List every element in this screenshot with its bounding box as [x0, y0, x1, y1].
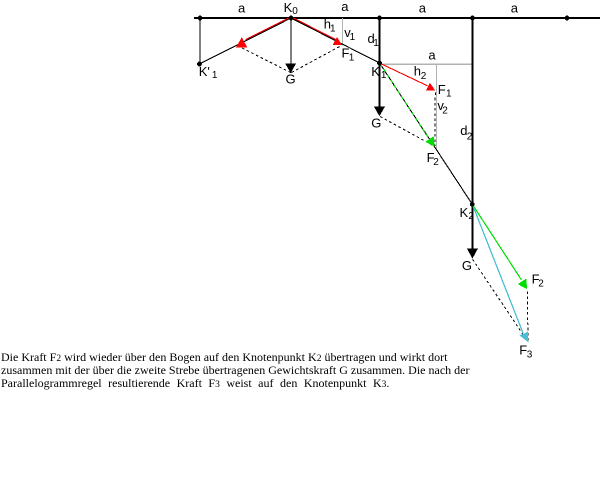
dashed parallelogram side F1 to F2 vertical [434, 93, 437, 147]
node dot above K2 [470, 16, 475, 21]
green arrowhead F2 [425, 136, 434, 146]
svg-text:K': K' [199, 64, 210, 79]
svg-text:0: 0 [292, 6, 298, 17]
cyan resultant force arrow F3 from K2 [472, 204, 523, 333]
red left arrowhead [236, 37, 247, 47]
red force arrow F1 along strut K0-K1 [291, 17, 337, 40]
svg-text:2: 2 [421, 71, 427, 82]
green force arrow F2 along strut K1-K2 [380, 64, 429, 139]
svg-text:G: G [462, 258, 472, 273]
red force arrow F1 transferred to K1 [380, 63, 428, 86]
svg-text:a: a [419, 1, 427, 16]
dashed parallelogram side F2 to F3 vertical [526, 291, 529, 340]
svg-text:zusammen mit der über die zwei: zusammen mit der über die zweite Strebe … [1, 363, 469, 377]
red arrowhead F1 at K1 [426, 83, 435, 91]
svg-text:1: 1 [212, 70, 218, 81]
weight force G2 arrowhead [374, 106, 385, 116]
drop line d2 and weight force G3 arrow line at K2 [472, 18, 474, 249]
dashed parallelogram side G2 to F2 [380, 117, 434, 147]
svg-text:F: F [438, 82, 446, 97]
node dot above K1 [377, 16, 382, 21]
svg-text:G: G [286, 72, 296, 87]
svg-text:2: 2 [442, 105, 448, 116]
svg-text:a: a [428, 47, 436, 62]
svg-text:1: 1 [349, 52, 355, 63]
strut K0-K1 [291, 18, 380, 63]
node K0 [289, 16, 294, 21]
svg-text:2: 2 [433, 157, 439, 168]
strut K1-K2 [380, 63, 473, 204]
node K2 [470, 202, 475, 207]
svg-text:1: 1 [446, 88, 452, 99]
weight force G1 arrow line at K0 [290, 18, 292, 65]
dashed parallelogram side G to F1 [292, 46, 342, 73]
strut K'1-K0 [200, 18, 292, 64]
green force arrow F2 transferred to K2 [472, 204, 521, 280]
red force arrow K0 to left strut [246, 17, 292, 40]
weight force G3 arrowhead [467, 248, 478, 258]
node dot right [565, 16, 570, 21]
svg-text:a: a [238, 1, 246, 16]
gray construction vertical v2 at x=436 [436, 64, 438, 149]
svg-text:1: 1 [381, 70, 387, 81]
node dot left anchor [198, 16, 203, 21]
cyan arrowhead F3 [520, 332, 529, 343]
svg-text:2: 2 [467, 132, 473, 143]
svg-text:Die Kraft F2 wird wieder über: Die Kraft F2 wird wieder über den Bogen … [1, 350, 448, 364]
svg-text:K: K [460, 205, 469, 220]
gray construction vertical v1 at x=342 [341, 18, 343, 46]
node K1 [377, 61, 382, 66]
svg-text:1: 1 [350, 32, 356, 43]
svg-text:G: G [371, 115, 381, 130]
svg-text:K: K [284, 0, 293, 15]
green arrowhead F2 at K2 [518, 279, 527, 290]
svg-text:a: a [511, 1, 519, 16]
dashed parallelogram side left arrow to G [242, 48, 291, 73]
svg-text:a: a [341, 0, 349, 14]
svg-text:1: 1 [330, 23, 336, 34]
drop line d1 and weight force G2 arrow line at K1 [379, 18, 381, 107]
svg-text:3: 3 [527, 349, 533, 360]
svg-text:2: 2 [538, 278, 544, 289]
svg-text:1: 1 [373, 38, 379, 49]
left suspender vertical [199, 18, 201, 65]
svg-text:Parallelogrammregel resultiere: Parallelogrammregel resultierende Kraft … [1, 376, 389, 390]
weight force G1 arrowhead [285, 64, 296, 74]
red arrowhead F1 [333, 37, 342, 45]
top chord line [194, 17, 600, 19]
svg-text:2: 2 [468, 211, 474, 222]
svg-text:K: K [371, 64, 380, 79]
dashed parallelogram side G3 to F3 [473, 259, 528, 341]
node K'1 [197, 62, 202, 67]
gray construction horizontal from K1 [380, 63, 472, 65]
